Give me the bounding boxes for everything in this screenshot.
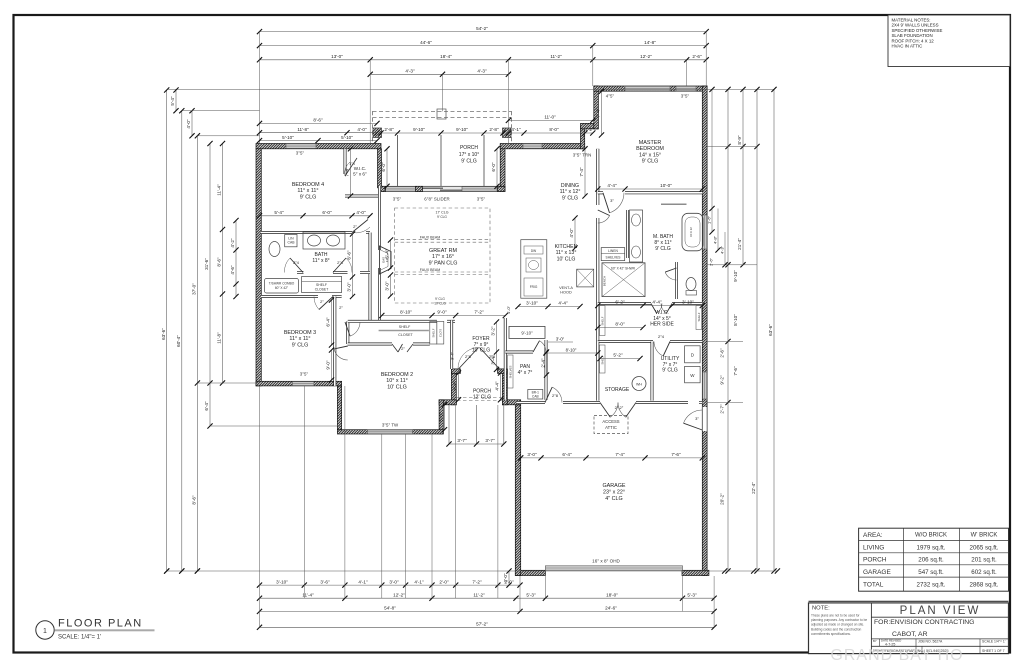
svg-text:4'-0": 4'-0" — [506, 305, 511, 314]
svg-text:8'-6": 8'-6" — [313, 118, 323, 123]
dim col: bed3 9-0 — [326, 347, 334, 382]
wall: rear porch pier mid-left — [416, 186, 423, 191]
svg-text:12'-2": 12'-2" — [393, 592, 405, 597]
dim row: mbath 6-2 4-4 3-10 — [595, 300, 705, 308]
wall: master bedroom top exterior — [594, 86, 707, 91]
svg-text:3°5°: 3°5° — [296, 151, 305, 156]
room label: M. BATH — [653, 234, 673, 252]
svg-text:4-7-25: 4-7-25 — [885, 643, 895, 647]
room label: GARAGE — [602, 483, 625, 502]
wall: bedroom4/bath interior — [261, 231, 352, 234]
svg-text:14'-8": 14'-8" — [644, 40, 656, 45]
dashed: faux beam lower — [395, 268, 490, 275]
fixture: bath toilet — [269, 242, 280, 257]
svg-text:602 sq.ft.: 602 sq.ft. — [971, 569, 997, 576]
svg-text:BEDROOM: BEDROOM — [636, 146, 664, 152]
extension line: bed3 bottom tie — [197, 382, 259, 384]
svg-text:4'-4": 4'-4" — [495, 381, 500, 391]
svg-text:22'-4": 22'-4" — [751, 482, 756, 494]
wall: garage bottom left segment — [515, 570, 545, 575]
svg-text:8'-6": 8'-6" — [217, 257, 222, 267]
svg-text:TOTAL: TOTAL — [863, 581, 884, 588]
title block — [809, 601, 1009, 653]
dim col: 4-0 top-left — [186, 108, 194, 138]
dim row: 13-0 18-4 11-2 12-2 2-6 — [257, 54, 709, 62]
wall: front porch to garage (horizontal) — [502, 400, 520, 405]
svg-text:4'-0": 4'-0" — [357, 127, 367, 132]
svg-text:7'-4": 7'-4" — [596, 108, 601, 118]
wall: bath lower stub left — [297, 271, 304, 274]
dim col: 63-6 left outer — [161, 87, 169, 573]
svg-text:4'-0": 4'-0" — [356, 210, 366, 215]
dim col: 11-4 8-6 11-8 — [217, 141, 225, 386]
svg-text:57'-2": 57'-2" — [476, 622, 488, 627]
walkway: front porch steps — [449, 405, 504, 444]
svg-text:21'-4": 21'-4" — [737, 238, 742, 250]
room label: STORAGE — [605, 387, 630, 393]
wall: great room left interior lower — [378, 268, 381, 322]
svg-text:7'-2": 7'-2" — [472, 579, 482, 584]
dim row: utility 5-2 — [597, 353, 642, 361]
svg-text:3°5° TRN: 3°5° TRN — [573, 153, 592, 158]
svg-text:2°4: 2°4 — [337, 261, 343, 265]
wall: foyer front right jamb — [498, 369, 508, 374]
svg-text:6°8° SLIDER: 6°8° SLIDER — [424, 197, 449, 202]
fixture: kitchen counter with sink and DW — [521, 240, 547, 299]
svg-text:9' CLG: 9' CLG — [292, 342, 309, 348]
dim row: garage 3-0 6-4 7-4 7-6 — [518, 452, 705, 460]
svg-text:MASTER: MASTER — [639, 140, 662, 146]
svg-text:commitments specifications.: commitments specifications. — [811, 632, 851, 636]
svg-text:12' CLG: 12' CLG — [473, 394, 491, 400]
svg-text:11'-8": 11'-8" — [297, 127, 309, 132]
dim col: 22-4 right — [751, 87, 759, 574]
svg-text:3'-7": 3'-7" — [485, 438, 495, 443]
wall: foyer left interior — [450, 320, 453, 369]
door: garage rear exit — [684, 410, 703, 430]
room label: BEDROOM 2 — [381, 372, 413, 390]
svg-text:23° x 22°: 23° x 22° — [603, 489, 625, 495]
svg-text:VENT-A: VENT-A — [559, 286, 573, 290]
door: garage attic double right — [618, 403, 636, 418]
door: wic niche angled door — [345, 158, 357, 176]
svg-text:4'-4": 4'-4" — [558, 301, 568, 306]
svg-text:SHELF: SHELF — [399, 325, 411, 329]
dim row: 5-10 5-10 — [257, 135, 380, 143]
wall: left exterior (bedrooms 4/bath/3) — [256, 149, 261, 386]
svg-text:10' CLG: 10' CLG — [434, 302, 446, 306]
svg-text:11° x 11°: 11° x 11° — [297, 188, 318, 194]
svg-text:4'-4": 4'-4" — [652, 300, 662, 305]
svg-text:ATTIC: ATTIC — [605, 425, 617, 430]
svg-text:HVAC IN ATTIC: HVAC IN ATTIC — [892, 44, 923, 49]
svg-text:8'-10": 8'-10" — [733, 314, 738, 326]
door: wic entry right — [661, 304, 672, 314]
wall: master bedroom bottom interior right — [625, 191, 702, 194]
svg-text:Building codes and the constru: Building codes and the construction — [811, 627, 862, 631]
svg-text:5'-3": 5'-3" — [687, 592, 697, 597]
svg-text:60" X 42" SHWR: 60" X 42" SHWR — [611, 267, 636, 271]
dim texts: right inner column (right of line) — [733, 270, 738, 376]
svg-text:4" CLG: 4" CLG — [605, 496, 623, 502]
extension line: right wall tie 146.5 — [707, 146, 757, 148]
wall: garage / house interior mid — [563, 401, 600, 404]
svg-text:9'-10": 9'-10" — [456, 127, 468, 132]
fixture: shelf closet (hall bath) — [302, 277, 342, 293]
svg-text:4'-1": 4'-1" — [358, 579, 368, 584]
svg-text:GREAT RM: GREAT RM — [429, 248, 457, 254]
extension line: right wall tie 264.8 — [707, 264, 757, 266]
svg-text:2°: 2° — [353, 224, 357, 229]
svg-text:These plans are not to be used: These plans are not to be used for — [811, 614, 860, 618]
door: 6080 slider rear porch — [421, 188, 462, 190]
wall: bedroom4/wic rear (top) exterior — [256, 144, 381, 149]
wall: bath top right jamb — [366, 231, 370, 234]
svg-text:8'-0": 8'-0" — [615, 322, 625, 327]
fixture: pantry shelves — [508, 355, 514, 388]
svg-text:206 sq.ft.: 206 sq.ft. — [918, 557, 944, 564]
door: bed2 closet bifold — [392, 344, 413, 352]
svg-text:3'-7": 3'-7" — [457, 438, 467, 443]
svg-text:W/O BRICK: W/O BRICK — [915, 533, 947, 539]
dim row: 8-6 bed4 — [257, 118, 380, 126]
dim col: rear porch 6-0 right — [491, 146, 499, 189]
svg-text:5'-10": 5'-10" — [341, 135, 353, 140]
svg-text:12'-2": 12'-2" — [640, 54, 652, 59]
svg-text:5° x 6°: 5° x 6° — [353, 171, 367, 176]
dim col: greatrm 3-0 — [385, 272, 393, 298]
dim col: master 7-4 — [596, 89, 604, 138]
room label: FOYER — [472, 336, 490, 354]
wall: bedroom2 right step (vertical) — [439, 400, 443, 434]
wall: bath/bedroom3 interior right — [332, 295, 342, 298]
svg-text:4'-3": 4'-3" — [720, 245, 725, 254]
room label: MASTER BEDROOM — [636, 140, 664, 165]
svg-text:4'-1": 4'-1" — [511, 127, 521, 132]
wall: mbath toilet room — [675, 262, 678, 299]
svg-text:11'-0": 11'-0" — [544, 115, 556, 120]
wall: wic / utility interior — [598, 340, 653, 343]
svg-text:2°: 2° — [401, 346, 405, 351]
fixture: bath vanity with two sinks — [303, 232, 345, 249]
wall: master bedroom left exterior — [594, 86, 599, 129]
wall: bed2 closet left end — [346, 321, 349, 344]
dim col: 63-6 right outer — [768, 87, 776, 574]
svg-text:4'-0": 4'-0" — [186, 119, 191, 129]
svg-text:13'-0": 13'-0" — [331, 54, 343, 59]
svg-text:4° x 7°: 4° x 7° — [518, 370, 533, 376]
wall: storage left interior — [596, 342, 599, 401]
extension line: left rows tie 110.7 — [182, 110, 260, 112]
svg-text:8'-9": 8'-9" — [737, 135, 742, 145]
extension line: master 2-6 tick — [686, 60, 688, 86]
fixture: utility washer box — [685, 366, 701, 382]
dim row: wic 8-0 — [595, 322, 645, 330]
fixture: utility dryer box — [685, 346, 701, 363]
wall: front porch right — [502, 369, 507, 404]
svg-text:HER SIDE: HER SIDE — [650, 322, 674, 328]
door: bedroom 3 — [314, 297, 333, 310]
fixture: tub/shower combo box — [265, 279, 299, 294]
room label: GREAT RM — [429, 248, 458, 266]
svg-text:5'-3": 5'-3" — [526, 592, 536, 597]
wall: pantry left interior — [504, 352, 507, 400]
wall: pantry right interior — [545, 340, 548, 400]
svg-text:DW: DW — [531, 249, 536, 253]
svg-text:8'-10": 8'-10" — [566, 348, 577, 353]
svg-text:9' CLG: 9' CLG — [562, 195, 578, 201]
svg-text:ACCESS: ACCESS — [602, 419, 619, 424]
svg-text:2°8: 2°8 — [552, 393, 559, 398]
svg-text:LIVING: LIVING — [863, 545, 884, 552]
svg-text:4'-0": 4'-0" — [503, 573, 508, 583]
svg-text:6'-0": 6'-0" — [381, 162, 386, 172]
svg-text:7'-4": 7'-4" — [579, 167, 584, 177]
svg-text:4'-0": 4'-0" — [569, 228, 574, 238]
extension line: right top corner — [705, 32, 707, 86]
svg-text:4'-3": 4'-3" — [477, 69, 487, 74]
svg-text:3°: 3° — [695, 416, 699, 421]
dim row: 44-6 / 14-8 — [257, 40, 709, 48]
wall: bed2 closet bottom right — [413, 343, 430, 346]
svg-text:BY: BY — [873, 639, 877, 643]
door: pantry — [533, 341, 546, 352]
window: utility right wall — [703, 372, 707, 399]
svg-text:1°4: 1°4 — [349, 162, 354, 166]
svg-text:2°4: 2°4 — [293, 261, 299, 265]
svg-text:3°5°: 3°5° — [300, 372, 309, 377]
svg-text:9'-2": 9'-2" — [720, 375, 725, 385]
dashed: front porch floor edge — [457, 400, 502, 402]
dim col: bed2 5-0 step — [439, 402, 447, 432]
wall: great room / dining rear exterior — [500, 144, 585, 149]
window 3050: rear porch right — [462, 187, 497, 192]
dim col: 31-6 6-4 — [204, 141, 212, 429]
svg-text:planning purposes. Any contrac: planning purposes. Any contractor to be — [811, 618, 867, 622]
fixture: wic shelves right — [696, 306, 702, 330]
svg-text:2732 sq.ft.: 2732 sq.ft. — [917, 581, 946, 588]
svg-text:11° x 12°: 11° x 12° — [560, 189, 581, 195]
svg-text:7'-4": 7'-4" — [345, 167, 350, 177]
svg-text:10' CLG: 10' CLG — [387, 384, 407, 390]
window: dining rear 3050 — [523, 144, 542, 149]
door: bath right — [333, 258, 352, 273]
dim row A: 3-10 3-6 4-1 3-0 4-1 2-0 7-2 2-0 — [257, 579, 523, 587]
svg-text:20'-2": 20'-2" — [720, 493, 725, 505]
svg-text:9'-10": 9'-10" — [413, 127, 425, 132]
svg-text:FOR:ENVISION CONTRACTING: FOR:ENVISION CONTRACTING — [874, 619, 974, 626]
wall: bedroom3/bedroom2 step (vertical) — [337, 386, 341, 430]
svg-text:NOTE:: NOTE: — [812, 606, 830, 612]
wall: rear porch pier right — [498, 186, 506, 191]
svg-text:11'-2": 11'-2" — [473, 592, 485, 597]
svg-text:SCALE: 1/4"= 1': SCALE: 1/4"= 1' — [58, 635, 101, 641]
svg-text:BEDROOM 3: BEDROOM 3 — [284, 330, 316, 336]
dim col: right wall inner tie — [709, 87, 714, 209]
svg-text:2°: 2° — [320, 300, 324, 304]
svg-text:14° x 15°: 14° x 15° — [639, 152, 661, 158]
svg-text:GARAGE: GARAGE — [863, 569, 891, 576]
svg-text:4'-2": 4'-2" — [230, 238, 235, 248]
svg-text:2°8: 2°8 — [489, 354, 496, 359]
svg-text:4'-1": 4'-1" — [414, 579, 424, 584]
svg-text:4'-4": 4'-4" — [607, 183, 617, 188]
svg-text:W: W — [690, 373, 695, 378]
svg-text:PORCH: PORCH — [863, 557, 887, 564]
svg-text:6'-4": 6'-4" — [562, 452, 572, 457]
extension line: master left top — [592, 46, 594, 86]
svg-text:5'-0": 5'-0" — [439, 412, 444, 422]
fixture: pantry BR-1 CAB — [528, 390, 543, 400]
svg-text:W' BRICK: W' BRICK — [971, 533, 998, 539]
svg-text:adjusted as made or changed on: adjusted as made or changed on site. — [811, 623, 864, 627]
svg-text:SHELF: SHELF — [431, 328, 435, 337]
svg-text:WH: WH — [636, 383, 642, 387]
svg-text:2'-4": 2'-4" — [541, 358, 546, 368]
svg-text:CLOSET: CLOSET — [398, 333, 413, 337]
door: bedroom 4 (at bath wall, into hall) — [352, 220, 370, 233]
room label: BEDROOM 3 — [284, 330, 316, 348]
door: garage attic double left — [600, 403, 618, 418]
svg-text:SCALE 1/4"= 1': SCALE 1/4"= 1' — [982, 640, 1006, 644]
svg-text:2'-8": 2'-8" — [489, 127, 499, 132]
svg-text:547 sq.ft.: 547 sq.ft. — [918, 569, 944, 576]
room label: DINING — [560, 183, 581, 201]
dashed: great room tray ceiling — [395, 208, 490, 303]
svg-text:9' CLG: 9' CLG — [461, 159, 477, 165]
svg-text:18'-0": 18'-0" — [606, 592, 618, 597]
fixture: toilet room toilet — [686, 278, 697, 296]
svg-text:10° x 11°: 10° x 11° — [386, 378, 408, 384]
wall: bedroom2 bottom exterior — [337, 430, 443, 434]
dashed: front porch step — [457, 397, 502, 399]
extension line: bed2 bottom tie — [210, 425, 340, 427]
wall: mbath / wic interior right — [672, 302, 702, 305]
svg-text:31'-6": 31'-6" — [204, 258, 209, 270]
door size labels — [293, 162, 699, 421]
dim col: foyer 3-2 3-4 — [491, 319, 499, 372]
fixture: linen closet columns by foyer — [430, 321, 444, 344]
wall: foyer right interior — [504, 318, 507, 352]
svg-text:6'-2": 6'-2" — [615, 300, 625, 305]
svg-text:10'-0": 10'-0" — [660, 183, 672, 188]
room label: W.I.C. small — [353, 166, 367, 176]
svg-text:2°,2°: 2°,2° — [615, 405, 624, 410]
dashed: rear porch roof outline — [373, 109, 512, 145]
fixture: master bath linen shelves — [601, 248, 625, 261]
dim col: front porch 4-4 right — [495, 370, 503, 402]
svg-text:3°5° TW: 3°5° TW — [382, 423, 399, 428]
extension line: left rows tie 135.8 — [197, 135, 259, 137]
wall: bed2 closet bottom left — [348, 343, 392, 346]
svg-text:4'-2": 4'-2" — [584, 127, 594, 132]
svg-text:9' CLG: 9' CLG — [300, 194, 317, 200]
svg-text:11° x 8°: 11° x 8° — [312, 258, 329, 264]
extension line: 4-3 mid — [442, 74, 444, 111]
svg-text:GRAND BAY HO: GRAND BAY HO — [830, 647, 963, 663]
svg-text:3°5°: 3°5° — [477, 197, 486, 202]
wall: rear porch pier left — [380, 186, 386, 191]
wall: garage / house interior right — [699, 401, 702, 404]
wall: great rm / bedroom2-closet interior — [348, 320, 437, 323]
room label: BATH — [312, 252, 329, 264]
svg-text:3'-0": 3'-0" — [347, 282, 352, 292]
svg-text:2065 sq.ft.: 2065 sq.ft. — [970, 545, 999, 552]
svg-text:2'-7": 2'-7" — [720, 404, 725, 414]
wall: great rm / foyer opening jamb — [447, 320, 455, 323]
svg-text:2'-6": 2'-6" — [709, 257, 714, 266]
svg-text:AREA:: AREA: — [863, 532, 883, 539]
wall: wic niche left — [344, 149, 347, 174]
svg-text:SHELF: SHELF — [697, 312, 701, 321]
area table — [859, 528, 1009, 591]
door: utility — [654, 342, 670, 357]
svg-text:54'-8": 54'-8" — [384, 606, 396, 611]
wall: garage left exterior — [515, 405, 520, 576]
svg-text:PLAN VIEW: PLAN VIEW — [900, 605, 981, 617]
svg-text:6'-0": 6'-0" — [322, 210, 332, 215]
svg-text:11'-4": 11'-4" — [217, 184, 222, 196]
door: bedroom 2 entry — [334, 346, 348, 360]
wall: wic / utility interior right — [670, 340, 702, 343]
room label: PORCH rear — [459, 145, 479, 165]
dim: foyer small rot labels — [450, 305, 512, 360]
dim col: 5-4 top-left — [170, 87, 178, 113]
svg-text:60 X 32: 60 X 32 — [689, 227, 693, 237]
svg-text:3°: 3° — [610, 198, 614, 203]
fixture: wic shelves left — [600, 306, 606, 336]
dim row: 4-1 8-0 4-2 — [506, 127, 596, 135]
svg-text:FAUX BEAM: FAUX BEAM — [420, 236, 441, 240]
wall: foyer front left jamb — [451, 369, 460, 374]
wall: mbath vanity/closet divider — [626, 210, 629, 258]
wall: bedroom2 front exterior — [439, 400, 456, 405]
dim col: rear porch 6-0 left — [381, 146, 389, 189]
svg-text:3'-0": 3'-0" — [556, 337, 565, 342]
fixture: kitchen range — [577, 269, 594, 287]
wall: wic niche bottom — [345, 195, 380, 198]
dim row: 54-2 overall top — [257, 26, 709, 34]
wall: pantry top interior — [505, 351, 533, 354]
extension line: right wall tie 341.5 — [707, 341, 743, 343]
dim row: bed4 5-4 6-0 4-0 — [257, 210, 373, 218]
dim col: bed3 6-4 — [326, 297, 334, 347]
dim: kitchen 3-0 and 8-10 — [543, 337, 600, 356]
svg-text:PORCH: PORCH — [460, 145, 478, 151]
room label: PAN — [518, 364, 533, 376]
wall: bath lower stub far right — [360, 271, 370, 274]
svg-text:10' CLG: 10' CLG — [557, 256, 576, 262]
svg-text:5'-2": 5'-2" — [613, 353, 623, 358]
svg-text:SHELF: SHELF — [316, 283, 327, 287]
svg-text:4'-4": 4'-4" — [453, 381, 458, 391]
dim col: utility 2-4 — [541, 349, 549, 377]
door: wic entry left — [651, 304, 662, 314]
room label: BEDROOM 4 — [292, 182, 324, 200]
svg-text:6'-4": 6'-4" — [204, 401, 209, 411]
svg-text:3°5°: 3°5° — [393, 197, 402, 202]
svg-text:6'-4": 6'-4" — [326, 317, 331, 327]
svg-text:9'-0": 9'-0" — [437, 310, 447, 315]
svg-text:7'-2": 7'-2" — [474, 310, 484, 315]
svg-text:5'-4": 5'-4" — [385, 249, 390, 259]
svg-text:16° x 8° OHD: 16° x 8° OHD — [592, 559, 620, 564]
svg-text:9' CLG: 9' CLG — [435, 297, 445, 301]
door: kitchen to mbath hall — [598, 210, 610, 223]
svg-text:2'-8": 2'-8" — [384, 127, 394, 132]
door: foyer double front doors — [458, 348, 500, 370]
svg-text:9' CLG: 9' CLG — [655, 246, 671, 252]
